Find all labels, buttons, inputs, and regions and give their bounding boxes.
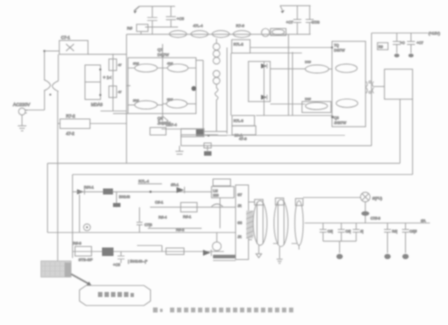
svg-text:47L-4: 47L-4 [193,24,203,28]
svg-text:(+12V): (+12V) [429,32,441,36]
svg-text:+C5: +C5 [177,16,185,21]
left module center leg [162,44,197,121]
right stage left edge [230,53,232,115]
row D resistor box [75,247,92,257]
W1 bottom ground [256,245,262,257]
row D right box [212,233,221,251]
label q4 [167,98,173,102]
filter cap C3 [109,86,122,98]
svg-text:1R#: 1R# [133,62,139,66]
wire breaker down long to connector [57,91,59,261]
winding ground marks small [273,243,297,245]
svg-text:JR: JR [238,235,243,239]
label q3 [133,99,139,103]
svg-text:C#|: C#| [328,230,333,234]
callout text blobs [98,292,134,297]
T1 top stub [216,39,218,44]
row D label STR-GF [79,258,94,262]
bus resistor RB2 [191,31,208,38]
right stage feed verticals [289,34,293,115]
svg-text:R#-3: R#-3 [73,242,81,246]
row A label left [84,186,94,190]
row D label above [73,242,81,246]
lamp FU circle [361,192,371,202]
top rail arrow [134,6,140,13]
mosfet Q8 [336,99,358,107]
row A diode Da [77,189,85,195]
T1 lower winding squiggle [215,84,218,131]
svg-text:G7: G7 [238,193,243,197]
wire block to core [249,239,253,241]
callout box [80,286,151,306]
svg-text:#(FU): #(FU) [373,197,383,201]
row B label C#-1 [155,201,163,205]
svg-text:+C5: +C5 [113,263,120,267]
driver diode D1 [261,64,267,69]
bridge rectifier MDA box [85,65,101,100]
wire module bottom row [162,128,204,130]
label FU [373,197,383,201]
bus resistor RB4 [233,31,250,38]
cap stub 2 [204,146,212,156]
mosfet Q4 [163,100,196,108]
svg-text:G8: G8 [238,221,243,225]
caps bottom wire [145,26,178,28]
wire block to W1 [249,201,255,203]
row D diode arrow [203,250,211,256]
svg-text:R#-2: R#-2 [176,228,184,232]
W2 top box [275,198,283,205]
svg-text:R#-1: R#-1 [183,215,191,219]
mosfet Q1 [128,64,163,72]
label 47-2 [66,131,75,136]
cap C4 bottom leg [151,21,153,27]
svg-text:Q7: Q7 [158,48,163,52]
hang cap H1 [338,223,345,241]
left dc bus vertical [126,34,128,163]
bus resistor RB1 [169,31,186,38]
label C5 [177,16,185,21]
svg-text:R#4-1: R#4-1 [84,186,94,190]
mosfet Q6 [302,102,332,113]
row A component box dark [103,189,113,195]
cap C6 plates [293,19,301,22]
row C wire [148,227,202,229]
svg-text:D8#: D8# [305,97,311,101]
top rail wire [139,5,175,7]
wire socket to breaker [26,109,45,111]
snubber join wire [323,240,356,242]
wire MDA bottom to main vertical [101,110,127,112]
label q5 [305,60,311,64]
transformer core hatch [246,211,253,239]
lamp to cap wire [364,202,366,223]
svg-text:JR: JR [238,204,243,208]
row A label right [171,183,179,187]
label right module bottom [334,116,347,125]
svg-text:R#|: R#| [392,230,397,234]
svg-text:MDA3: MDA3 [91,102,103,107]
row B wire [150,204,236,207]
svg-text:7Q: 7Q [334,44,339,48]
svg-text:+C: +C [400,41,405,45]
label H2 [361,230,364,234]
svg-text:47: 47 [118,90,122,94]
cap C5 plates [166,17,176,20]
label C6 [286,21,293,25]
svg-text:R7L-4: R7L-4 [139,180,149,184]
W3 bottom stub [298,245,300,249]
svg-text:DG7W: DG7W [334,49,345,53]
label +7V [103,75,112,80]
svg-text:C#|#: C#|# [410,230,417,234]
row C label 2 [176,228,184,232]
output loop rect [384,69,412,99]
AC socket symbol [19,108,28,115]
svg-text:JHB7W: JHB7W [334,121,347,125]
MDA terminal dots [99,68,101,96]
control box left edge [47,163,49,232]
wire bus to bridge module pin [127,85,131,87]
right stage bottom-left resistor box [232,116,255,126]
row C cap circle [137,207,153,232]
svg-text:C7/8: C7/8 [312,21,320,25]
left bridge module box [113,58,196,114]
row D dark box STR [102,248,114,257]
ground [18,126,27,131]
driver cluster box [248,61,270,101]
snubber capacitor C7-1 box [59,41,88,55]
breaker QF right contact [52,81,58,92]
current sensor diamond [158,117,168,125]
wire mid extra [218,134,345,136]
feedback vertical A [399,99,401,163]
mid cluster label [235,134,243,138]
label q1 [133,62,139,66]
small box above op-amp [213,179,231,186]
breaker right wire up [57,54,59,81]
aux cap C9 [407,33,415,57]
svg-text:R7L-3: R7L-3 [234,119,244,123]
mosfet Q7 [336,64,358,72]
cap C5 bottom leg [170,20,172,27]
right module box [332,41,366,126]
connector hatched blob [41,261,71,277]
label 12V [429,32,441,36]
wire to snubber [44,50,59,52]
svg-text:LM7-4: LM7-4 [166,123,177,127]
wire R7-2 to bus vertical [90,123,127,125]
output mid wire [305,222,430,224]
svg-text:R7-2: R7-2 [66,114,76,119]
row A diode Db [177,187,185,193]
svg-text:R7L-2: R7L-2 [234,43,244,47]
bus resistor RB5 boxed [271,29,287,36]
filter cap C2 [109,59,122,71]
svg-text:Q8: Q8 [334,116,339,120]
mosfet Q2 [163,64,196,72]
svg-text:DG7W: DG7W [158,53,170,57]
op-amp block U2 [212,187,235,198]
right stage bottom wire [256,115,332,117]
driver diode D2 [261,95,267,100]
svg-text:+ 1<: + 1< [103,75,112,80]
resistor R1 box [137,24,148,34]
long wire upper (control box top) [48,162,401,164]
transformer winding W2 [274,199,288,246]
breaker left wire up [43,50,45,80]
cap C6 leg [296,6,298,19]
row D label +C5 [113,263,120,267]
label MDA3 [91,102,103,107]
wire rowA down [79,195,81,233]
cap C7 leg [309,6,311,19]
output transformer bowtie [366,81,374,94]
label below bl resistor [239,137,247,141]
svg-text:C7|8: C7|8 [145,223,153,227]
mosfet Q3 [128,101,163,109]
label R1 [127,26,133,31]
right rail wire top [280,5,311,7]
cap C4 plates [147,18,157,21]
transformer T1 winding circles [213,43,220,84]
svg-text:| IN4148--|*: | IN4148--|* [128,260,148,264]
polarized cap blob [361,211,369,216]
transformer winding W1 [253,201,267,246]
main top bus [127,33,311,35]
svg-text:#A: #A [421,219,426,223]
svg-text:339: 339 [213,194,219,198]
cap C5 top leg [170,6,172,16]
label R7-2 [66,114,76,119]
filter column wire [112,54,114,111]
inner box left edge [72,175,74,259]
label q6 [305,97,311,101]
wire bowtie to loop [374,86,384,88]
svg-text:2R#: 2R# [133,99,139,103]
middle vertical wire [226,48,228,134]
breaker dot [49,94,51,96]
cap C7 bottom [309,23,311,35]
mid cluster box A [150,128,166,136]
bus resistor RB3 [212,31,229,38]
feedback vertical B [412,99,414,174]
row D wire [73,251,225,253]
row B resistor box [181,203,197,212]
wire junction row [203,131,227,136]
mid cluster wires [181,135,218,146]
svg-text:4R#: 4R# [167,62,173,66]
label H4 [410,230,417,234]
svg-text:STB-GF: STB-GF [79,258,94,262]
wire up to breaker contact [44,91,46,111]
hang cap H4 [402,223,409,259]
wire cluster to mosfets bottom [270,103,305,105]
left module right wire [196,60,203,131]
AC input label AC220V [13,102,31,107]
row C label 1 [159,216,167,220]
resistor on feedback wire [204,143,211,148]
breaker QF left contact [44,80,51,91]
svg-text:C#-1: C#-1 [155,201,163,205]
svg-text:C7-1: C7-1 [61,35,71,40]
svg-text:R9: R9 [379,45,383,49]
right stage second wire [250,52,302,54]
svg-text:IN4148: IN4148 [119,195,130,199]
label right module top [334,44,345,53]
snubber drop to ground [336,241,342,259]
label C7 [312,21,320,25]
mid cluster box B [181,129,204,137]
label C7-1 [61,35,71,40]
mosfet Q5 [305,65,332,73]
mid feedback wire [181,145,372,147]
svg-text:47-2: 47-2 [66,131,75,136]
label above RB4 [236,24,244,28]
control box bottom edge [48,232,236,234]
svg-text:+C7: +C7 [286,21,293,25]
row D box R [166,248,184,255]
hang res H2 [353,223,360,241]
hang cap H3 [384,223,391,259]
row D label IN4148 [128,260,148,264]
row B label below [183,215,191,219]
svg-text:AC220V: AC220V [13,102,31,107]
svg-text:#|: #| [361,230,364,234]
right stage top-left resistor box [232,40,250,53]
label q2 [167,62,173,66]
left column cap cluster [113,192,121,207]
svg-text:#R-1: #R-1 [171,183,179,187]
svg-text:3R#: 3R# [167,98,173,102]
output wire end label [421,219,426,223]
wire cluster to mosfets top [270,68,305,70]
row D wire up corner [137,246,162,252]
snubber cap S1 [320,223,333,241]
svg-text:R7-6: R7-6 [236,24,244,28]
cap C7 plates [306,19,314,22]
op-amp output drop [219,198,221,229]
W2 bottom ground [277,247,283,264]
svg-text:47: 47 [118,63,122,67]
label sensor [166,123,177,127]
cap C4 top leg [151,6,153,17]
label H3 [392,230,397,234]
dark bus bar [213,255,236,261]
svg-text:+C7: +C7 [417,41,424,45]
igbt block labels [238,193,243,239]
svg-text:C7#-8: C7#-8 [371,217,381,221]
label Q bottom left module [158,117,171,126]
wire caps to bus [151,27,153,34]
svg-text:R#-4: R#-4 [159,216,167,220]
label aux caps [400,41,423,45]
aux rail drop vertical [371,33,373,146]
label H1 [346,230,351,234]
callout arrow [71,274,92,286]
igbt output block [236,185,249,260]
aux resistor box [377,43,388,50]
svg-text:C#|: C#| [346,230,351,234]
aux cap C8 [393,33,401,57]
bus lamp circle [262,29,270,37]
label IN4148 row A [119,195,130,199]
label Q top left module [158,48,170,57]
label below cap blob [371,217,381,221]
resistor R7-2 box [58,119,90,129]
cap stub 1 [176,146,184,155]
label R7L-4 underlined [138,180,162,184]
svg-text:R#: R# [127,26,133,31]
module corner dots [331,46,334,118]
output top wire [303,197,361,199]
svg-text:D7#: D7# [305,60,311,64]
wire snubber to MDA [88,53,127,55]
driver cluster center leg [263,61,265,115]
label above RB2 [193,24,203,28]
right stage top wire [250,47,332,49]
row A wire [73,191,212,193]
long wire inner [73,174,413,176]
cap C6 bottom [296,23,298,35]
aux 12V rail [372,32,429,34]
caption text blobs [153,308,293,313]
row C circle node [84,224,91,231]
svg-text:LM: LM [213,189,218,193]
transformer winding W3 [295,201,303,246]
right rail arrow [280,6,285,14]
W1 top box [255,199,263,205]
resistor box R7L-3b [232,126,256,135]
wire socket to ground [21,115,23,126]
W3 top box [296,199,304,206]
row D cap [118,252,125,264]
